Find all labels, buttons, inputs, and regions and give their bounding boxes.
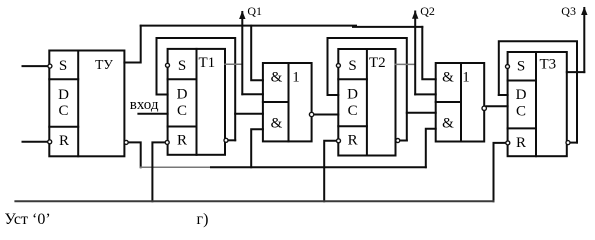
flip-flop T3 box [508,52,567,156]
T2 column divider [366,49,368,156]
TU S cell divider [49,78,78,80]
T2 R cell divider [338,125,367,127]
svg-text:D: D [177,86,188,102]
wire T2 R input [324,141,336,202]
svg-text:C: C [177,103,187,119]
bubble TU R input [48,140,52,144]
bubble T1 R input [165,140,169,144]
svg-text:S: S [517,58,525,74]
bubble TU notQ output [124,140,128,144]
wire T1 Q output gray [225,63,242,65]
svg-text:&: & [271,70,283,86]
wire TU S input [23,65,48,67]
svg-text:S: S [178,58,186,74]
wire T2 notQ to loop [400,140,407,142]
svg-text:1: 1 [292,70,300,86]
svg-text:D: D [516,87,527,103]
wire notQ bus to gate D1 lower input [251,129,263,167]
T3 column divider [535,52,537,156]
TU column divider [77,51,79,157]
TU R cell divider [49,126,78,128]
wire notQ bus to gate D2 lower input [426,129,436,168]
arrowhead Q3 [581,7,587,15]
svg-text:Уст ‘0’: Уст ‘0’ [5,211,51,228]
wire top bus left part [141,25,356,27]
wire TU R input [23,141,48,143]
wire T1 R input [152,142,165,201]
svg-text:ТУ: ТУ [95,57,113,72]
svg-text:г): г) [197,211,209,228]
wire T1 notQ to loop [228,139,235,141]
bubble gate2 output [482,106,486,110]
wire Q1 vertical [241,12,243,94]
arrowhead Q2 [412,11,418,19]
svg-text:&: & [271,116,283,132]
T2 S cell divider [338,78,367,80]
bubble T1 S input [166,63,170,67]
wire Q3 vertical [583,8,585,72]
wire gate1 output to T2 C [314,114,339,116]
bubble T1 notQ output [224,138,228,142]
wire Q2 vertical [414,12,416,95]
svg-text:Q3: Q3 [561,4,576,18]
gate1 cell divider [263,101,289,103]
svg-text:D: D [347,86,358,102]
arrowhead Q1 [239,11,245,19]
svg-text:S: S [59,58,67,74]
svg-text:&: & [442,70,454,86]
wire T1 feedback loop left and top and right [157,38,236,140]
svg-text:C: C [516,104,526,120]
gate1 column divider [288,63,290,141]
svg-text:вход: вход [130,97,159,113]
wire T3 Q output to Q3 [567,71,585,73]
wire T1 loop tap to gate1 lower input1 [235,113,263,115]
wire Q1 to gate1 upper input2 [242,93,263,95]
wire T3 feedback loop [499,41,577,142]
wire T2 Q output gray [396,63,416,65]
wire top bus branch to gate D1 input [251,26,263,80]
svg-text:&: & [442,116,454,132]
wire T3 notQ to loop [570,142,577,144]
svg-text:R: R [177,132,187,148]
wire top bus right part [353,26,422,28]
arrows [239,7,587,19]
svg-text:Q2: Q2 [420,4,435,18]
wire T2 loop tap to gate2 lower input1 [407,112,436,114]
wire Q2 to gate2 upper input2 [415,93,436,95]
svg-text:D: D [58,87,69,103]
wire notQ bus black part [211,166,426,168]
gate2 cell divider [436,101,461,103]
wire TU notQ output [128,142,140,167]
bubble T3 R input [506,141,510,145]
flip-flop TU (control) box [49,51,124,157]
svg-text:R: R [516,135,526,151]
T3 S cell divider [508,80,536,82]
wire T3 R input [494,143,506,201]
bubble T2 R input [337,139,341,143]
bubble gate1 output [309,112,313,116]
wire T2 D entry [328,94,339,96]
svg-text:C: C [348,103,358,119]
wire notQ bus gray part [141,166,212,168]
wire gate2 output to T3 C [486,105,507,107]
svg-text:Q1: Q1 [247,4,262,18]
T1 column divider [196,49,198,155]
svg-text:T1: T1 [199,55,216,71]
svg-text:1: 1 [462,70,470,86]
T1 R cell divider [168,126,197,128]
bubbles [48,63,570,145]
wire TU Q output to top bus [124,26,140,63]
svg-text:T3: T3 [540,56,557,72]
svg-text:R: R [348,132,358,148]
bubble TU S input [48,64,52,68]
wire T1 D entry [157,94,168,96]
gate AND-OR 2 box [436,63,485,142]
gate2 column divider [460,63,462,142]
bubble T2 S input [336,64,340,68]
T1 S cell divider [168,78,197,80]
wire T2 feedback loop [328,38,407,141]
flip-flop T1 box [168,49,225,155]
wire vhod input to T1 C [138,113,167,115]
svg-text:C: C [58,103,68,119]
bubble T3 S input [506,65,510,69]
wire set-zero line [15,200,493,202]
svg-text:T2: T2 [369,55,386,71]
bubble T2 notQ output [396,139,400,143]
gate AND-OR 1 box [263,63,312,141]
wire T3 D entry [499,94,508,96]
svg-text:R: R [59,133,69,149]
svg-text:S: S [348,58,356,74]
flip-flop T2 box [338,49,395,156]
T3 R cell divider [508,127,536,129]
wire top bus end to gate D2 input [422,27,435,79]
bubble T3 notQ output [566,141,570,145]
